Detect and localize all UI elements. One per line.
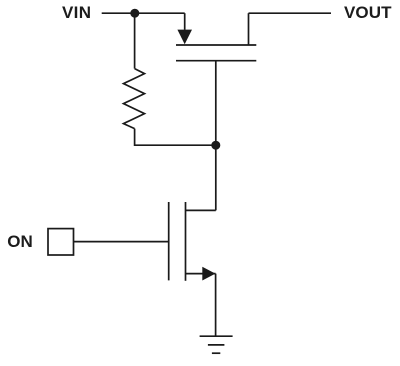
Q1 drain lead up to VOUT wire — [248, 13, 250, 45]
transistor Q2 (NMOS) — [169, 202, 216, 281]
resistor R1 — [124, 69, 145, 129]
ground bottom line — [212, 352, 220, 354]
wire VOUT horizontal — [249, 12, 332, 14]
Q2 drain lead — [186, 209, 216, 211]
wire ON box to Q2 gate — [74, 241, 169, 243]
junction dot at VIN node — [130, 9, 139, 18]
Q2 channel line — [185, 202, 187, 281]
ON input pin box — [48, 229, 74, 255]
wire resistor bottom to gate node — [135, 129, 216, 146]
Q2 source lead — [186, 273, 216, 275]
wire VIN horizontal to Q1 source — [102, 12, 185, 14]
wire VIN node down to resistor top — [134, 13, 136, 68]
transistor Q1 (PMOS pass FET) — [176, 13, 256, 61]
Q1 source lead from VIN — [184, 13, 186, 30]
svg-text:VOUT: VOUT — [344, 3, 392, 22]
wire Q1 gate down to gate node — [215, 61, 217, 146]
Q2 gate line — [168, 202, 170, 280]
junction dot at gate node — [211, 141, 220, 150]
ground — [200, 336, 233, 353]
svg-text:ON: ON — [7, 232, 33, 251]
Q1 gate bar — [176, 60, 256, 62]
Q2 source arrow (points out of device) — [202, 267, 215, 281]
ground middle line — [208, 344, 225, 346]
Q1 source arrow (points into device) — [177, 30, 192, 45]
ground top line — [200, 335, 233, 337]
wire Q2 source down to ground — [215, 274, 217, 337]
wire gate node down to Q2 drain — [215, 145, 217, 210]
Q1 top bar (source/drain channel) — [176, 44, 256, 46]
svg-text:VIN: VIN — [62, 3, 91, 22]
